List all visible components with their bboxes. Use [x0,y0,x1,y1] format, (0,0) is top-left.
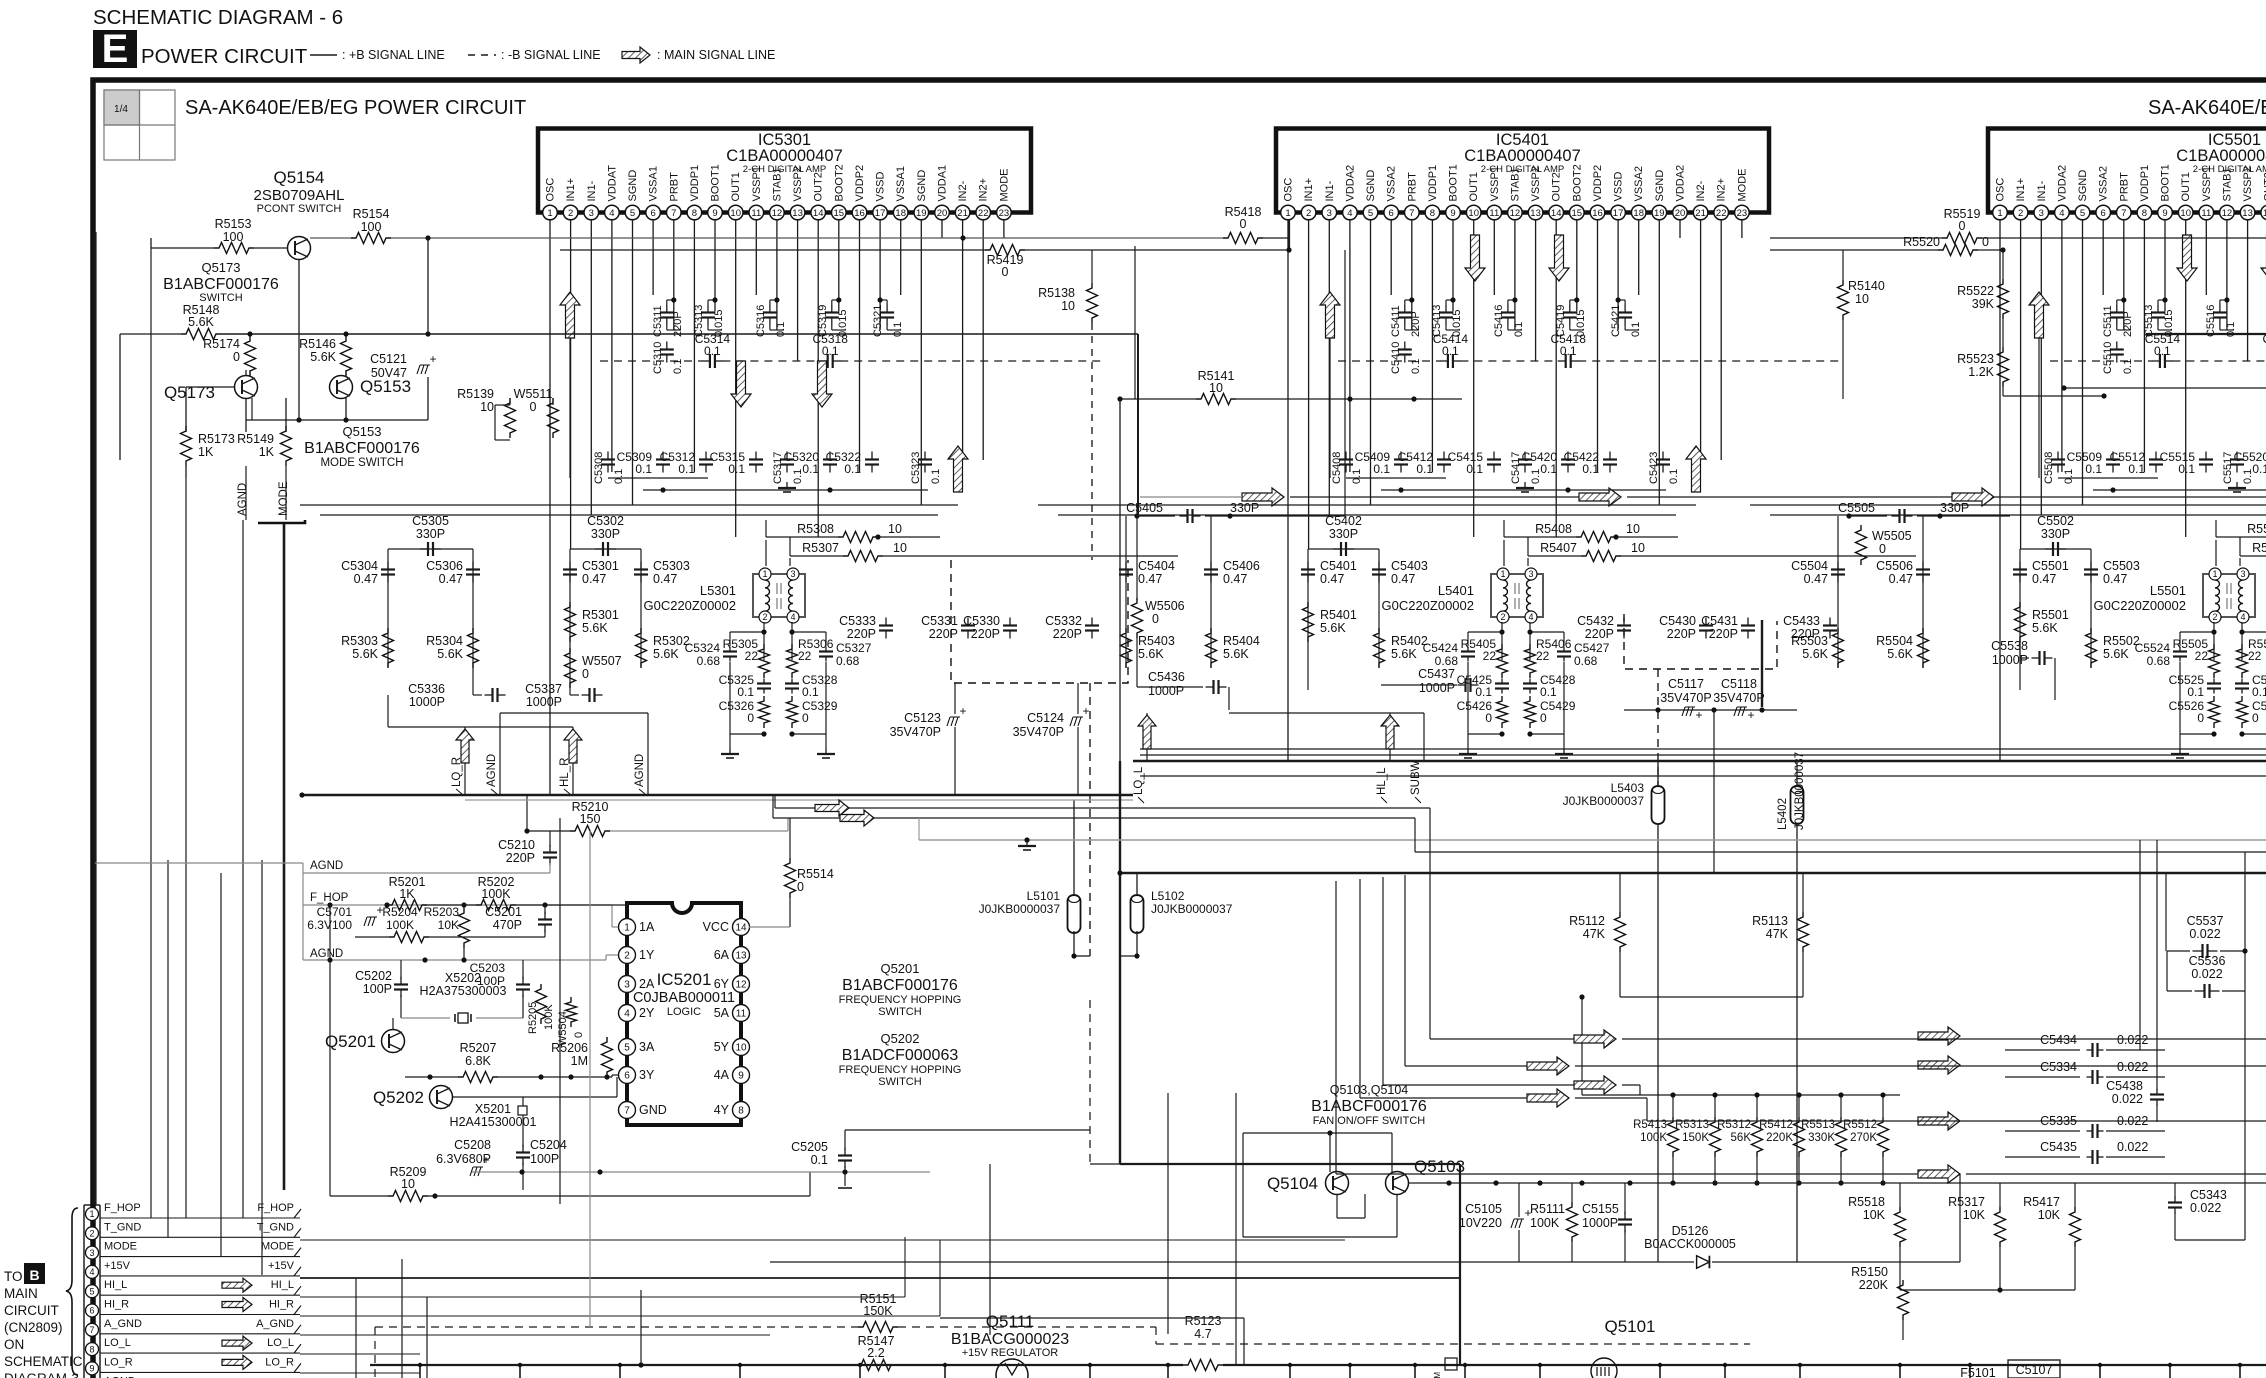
resistor R5508 10 [2216,536,2266,538]
capacitor C5315 [755,452,757,460]
svg-text:AGND: AGND [237,483,249,516]
svg-text:C5117: C5117 [1668,677,1704,691]
svg-text:C5304: C5304 [341,559,378,573]
svg-text:0.1: 0.1 [1630,322,1642,337]
svg-text:HL_R: HL_R [559,758,571,787]
wire stub [739,1365,741,1378]
svg-text:L5501: L5501 [2150,583,2186,598]
svg-text:C5118: C5118 [1721,677,1757,691]
svg-text:0.1: 0.1 [1373,462,1390,476]
resistor R5301 5.6K [565,602,576,642]
svg-text:100K: 100K [1530,1216,1560,1230]
svg-text:4: 4 [1347,208,1352,219]
resistor R5404 5.6K [1206,628,1217,668]
wire [2019,549,2021,690]
wire [120,333,181,335]
svg-text:HL_L: HL_L [1376,767,1388,795]
wire pin 1 drop [549,220,551,795]
wire verticals lower left [355,1278,357,1378]
wire pin 3 drop [590,220,592,515]
svg-text:IN2-: IN2- [957,180,969,201]
capacitor C5431 220P [1747,618,1749,626]
resistor R5304 5.6K [468,628,479,668]
svg-text:23: 23 [999,208,1010,219]
wire diag lines lower left [300,1353,420,1355]
wire pin 8 drop [693,220,695,472]
wire pin 19 drop [920,220,922,505]
-B dashed line with C5414 C5418 [1338,360,1440,362]
wire pin 19 drop [1658,220,1660,505]
svg-text:0.1: 0.1 [811,1153,828,1167]
resistor R5173 1K [181,426,192,466]
brace [66,1208,78,1375]
main signal arrow down [1549,235,1569,281]
capacitor C5425 0.1 [1501,679,1503,684]
wire pin 9 drop [714,220,716,311]
svg-text:A_GND: A_GND [256,1318,294,1330]
resistor R5514 0 [785,858,796,898]
-B dashed line with C5314 C5318 [600,360,702,362]
svg-text:C5504: C5504 [1791,559,1828,573]
svg-text:5: 5 [1368,208,1373,219]
svg-text:F_HOP: F_HOP [104,1202,141,1214]
resistor R5303 5.6K [383,628,394,668]
capacitor C5502 330P bridge [2020,548,2091,550]
wire dashed A_GND row [375,1326,858,1328]
svg-text:R5317: R5317 [1948,1195,1985,1209]
wire pin 17 drop [879,220,881,330]
svg-text:R5407: R5407 [1540,541,1577,555]
svg-text:9: 9 [1450,208,1455,219]
svg-text:15: 15 [834,208,845,219]
svg-text:C5536: C5536 [2189,954,2226,968]
capacitor C5401 [1307,562,1309,570]
wire pin 6 drop [652,220,654,295]
wire [1125,516,1127,667]
transformer L5301 G0C220Z00002 [753,574,805,617]
svg-text:220P: 220P [506,851,535,865]
svg-text:5: 5 [89,1286,94,1296]
svg-text:C5503: C5503 [2103,559,2140,573]
svg-text:C5427: C5427 [1574,641,1610,655]
svg-text:10K: 10K [1963,1208,1986,1222]
svg-text:POWER CIRCUIT: POWER CIRCUIT [141,45,308,68]
svg-text:PRBT: PRBT [668,172,680,202]
svg-text:20: 20 [1675,208,1686,219]
wire pin 5 drop [1370,220,1372,505]
svg-text:220P: 220P [1709,627,1738,641]
wire pin 3 drop [2040,220,2042,515]
svg-text:+: + [1082,704,1089,718]
svg-text:1: 1 [624,923,630,934]
svg-text:R5123: R5123 [1185,1314,1222,1328]
svg-text:C5204: C5204 [530,1138,567,1152]
svg-text:13: 13 [1530,208,1541,219]
svg-text:0.1: 0.1 [728,462,745,476]
svg-text:0: 0 [233,350,240,364]
svg-text:IN1+: IN1+ [1303,178,1315,202]
svg-text:4.7: 4.7 [1194,1327,1211,1341]
capacitor C5337 1000P [582,694,590,696]
svg-text:0: 0 [1240,217,1247,231]
svg-text:FREQUENCY HOPPING: FREQUENCY HOPPING [839,994,962,1006]
svg-text:BOOT1: BOOT1 [710,164,722,201]
wire pin 4 drop [2061,220,2063,472]
svg-text:2Y: 2Y [639,1006,655,1020]
wire stub [944,1365,946,1378]
svg-text:B1BACG000023: B1BACG000023 [951,1331,1069,1348]
capacitor C5305 330P bridge [388,548,473,550]
svg-text:0.1: 0.1 [930,469,942,484]
wire y1318 [940,1317,1244,1319]
svg-text:Q5202: Q5202 [373,1088,424,1107]
svg-text:C5406: C5406 [1223,559,1260,573]
svg-text:C5205: C5205 [791,1140,828,1154]
wire stub [1349,1365,1351,1378]
svg-text:VCC: VCC [703,920,729,934]
svg-text:12: 12 [735,980,747,991]
connector pin 8 LO_L [86,1343,99,1356]
resistor R5407 10 [1528,555,1581,557]
svg-text:330P: 330P [591,527,620,541]
svg-text:11: 11 [736,1009,747,1020]
svg-text:BOOT2: BOOT2 [1571,164,1583,201]
wire pin 7 drop [1411,220,1413,330]
svg-text:L5102: L5102 [1151,889,1185,903]
svg-text:39K: 39K [1972,297,1995,311]
wire stub [1969,1365,1971,1378]
svg-text:PRBT: PRBT [1406,172,1418,202]
svg-text:B1ADCF000063: B1ADCF000063 [842,1047,959,1064]
svg-text:VDDP1: VDDP1 [2139,165,2151,202]
svg-text:LO_R: LO_R [104,1356,133,1368]
resistor R5503 5.6K [1833,628,1844,668]
svg-text:220K: 220K [1766,1132,1793,1144]
capacitor C5317 [786,452,788,460]
wire T_GND long [300,1239,1345,1241]
wire stub [1167,1365,1169,1378]
capacitor C5323 [924,452,926,460]
main signal arrow down [2177,235,2197,281]
wire HI_R [300,1315,940,1317]
svg-text:C5311: C5311 [652,305,664,337]
svg-text:VSSP2: VSSP2 [792,166,804,201]
svg-text:0: 0 [582,667,589,681]
connector pin 1 F_HOP [86,1208,99,1221]
ground on grey line [1026,840,1028,846]
svg-text:MAIN: MAIN [4,1286,38,1301]
svg-text:1000P: 1000P [1992,653,2028,667]
svg-text:C5123: C5123 [904,711,941,725]
capacitor C5508 [2057,452,2059,460]
wire rail [1346,477,1446,479]
capacitor C5524 0.68 [2179,647,2181,652]
connector pin 6 HI_R [86,1304,99,1317]
svg-text:10K: 10K [2038,1208,2061,1222]
resistor R5302 5.6K [636,628,647,668]
svg-text:3: 3 [2240,569,2245,579]
svg-text:F_HOP: F_HOP [310,892,349,904]
wire transformer feed [2215,540,2217,566]
svg-text:35V470P: 35V470P [1013,725,1064,739]
svg-text:C5121: C5121 [370,352,407,366]
svg-text:C5417: C5417 [1510,452,1522,484]
svg-text:7: 7 [2121,208,2126,219]
svg-text:0: 0 [2197,711,2204,725]
svg-text:0.47: 0.47 [582,572,606,586]
svg-text:X5201: X5201 [475,1102,511,1116]
svg-text:W5511: W5511 [514,387,553,401]
wire pin 20 drop [941,220,943,238]
wire main bus y795 thick left [300,794,1133,797]
svg-text:R5138: R5138 [1038,286,1075,300]
svg-text:5.6K: 5.6K [1223,647,1249,661]
svg-text:0.022: 0.022 [2117,1033,2148,1047]
svg-text:C5302: C5302 [587,514,624,528]
svg-text:C5433: C5433 [1783,614,1820,628]
resistor C5326 0 [759,696,770,728]
svg-text:R5203: R5203 [424,905,460,919]
svg-text:R5403: R5403 [1138,634,1175,648]
main signal arrow right y818 [840,810,874,826]
svg-text:SGND: SGND [2077,170,2089,202]
svg-text:0.1: 0.1 [2252,685,2266,699]
ground [2179,748,2181,754]
svg-text:J0JKB0000037: J0JKB0000037 [1794,752,1806,830]
svg-text:G0C220Z00002: G0C220Z00002 [1381,598,1474,613]
svg-text:22: 22 [2195,649,2209,663]
capacitor C5432 220P [1623,618,1625,626]
svg-text:Q5153: Q5153 [360,377,411,396]
svg-text:L5301: L5301 [700,583,736,598]
resistor R5504 5.6K [1918,628,1929,668]
wire pin 2 drop [1308,220,1310,549]
svg-text:0.1: 0.1 [2154,344,2171,358]
svg-text:1.2K: 1.2K [1968,365,1994,379]
transistor Q5202 [430,1086,453,1109]
svg-text:0.1: 0.1 [802,685,819,699]
svg-text:LQ_R: LQ_R [451,757,463,787]
svg-text:Q5111: Q5111 [986,1312,1035,1331]
transistor Q5173 [235,376,258,399]
transistor Q5201 [382,1030,405,1053]
wire thick L5102 to bottom [1120,1163,1460,1165]
svg-text:VSSD: VSSD [875,171,887,201]
svg-text:220P: 220P [971,627,1000,641]
svg-text:100P: 100P [363,982,392,996]
svg-text:4: 4 [790,612,795,622]
svg-text:5: 5 [2080,208,2085,219]
jumper W5507 0 [565,648,576,688]
svg-text:G0C220Z00002: G0C220Z00002 [643,598,736,613]
svg-text:LO_R: LO_R [265,1356,294,1368]
svg-text:1000P: 1000P [1582,1216,1618,1230]
svg-text:R5205: R5205 [527,1002,539,1034]
wire pin 14 drop [1555,220,1557,537]
svg-text:0.1: 0.1 [2252,462,2266,476]
capacitor C5435 [2005,1156,2080,1158]
svg-text:C5410: C5410 [1390,342,1402,374]
svg-text:C5434: C5434 [2040,1033,2077,1047]
wire rail [1770,514,2266,516]
wire pin 1 drop [1999,220,2001,761]
ground [786,482,788,488]
wire bus y755 thin [1140,754,2266,756]
svg-text:1: 1 [1997,208,2002,219]
svg-text:0.1: 0.1 [1475,685,1492,699]
svg-text:1K: 1K [399,887,415,901]
wire rail [1750,504,2266,506]
resistor R5502 5.6K [2086,628,2097,668]
svg-text:C5303: C5303 [653,559,690,573]
wire pin 7 drop [673,220,675,330]
svg-text:CIRCUIT: CIRCUIT [4,1303,59,1318]
svg-text:18: 18 [895,208,906,219]
svg-text:+15V: +15V [268,1260,295,1272]
svg-text:OSC: OSC [545,178,557,202]
svg-text:C5208: C5208 [454,1138,491,1152]
section letter E box [93,30,137,68]
svg-text:220K: 220K [1859,1278,1889,1292]
wire stub [419,1365,421,1378]
svg-text:VSSP2: VSSP2 [2242,166,2254,201]
svg-text:C5502: C5502 [2037,514,2074,528]
svg-text:R5408: R5408 [1535,522,1572,536]
capacitor C5416 [1507,305,1509,313]
svg-text:3: 3 [89,1248,94,1258]
wire pin 8 drop [2143,220,2145,472]
svg-text:13: 13 [2242,208,2253,219]
svg-text:6: 6 [624,1071,630,1082]
svg-text:C5310: C5310 [652,342,664,374]
svg-text:C5408: C5408 [1331,452,1343,484]
svg-text:VDDA2: VDDA2 [1344,165,1356,202]
main signal arrow right y808 [815,800,849,816]
svg-text:C5324: C5324 [685,641,721,655]
svg-text:5.6K: 5.6K [1887,647,1913,661]
connector pin 9 LO_R [86,1362,99,1375]
svg-text:0.022: 0.022 [2117,1060,2148,1074]
svg-text:6A: 6A [714,948,730,962]
wire rail [1381,489,1666,491]
svg-text:11: 11 [751,208,761,219]
svg-text:0.1: 0.1 [635,462,652,476]
capacitor C5503 [2090,562,2092,570]
wire pin 22 drop [982,220,984,460]
svg-text:4: 4 [2240,612,2245,622]
capacitor C5408 [1345,452,1347,460]
svg-text:0.1: 0.1 [1560,344,1577,358]
svg-text:5.6K: 5.6K [310,350,336,364]
wire bus y873 thick [1120,872,2266,874]
svg-text:+: + [429,352,436,366]
wire stub [1899,1365,1901,1378]
svg-text:0: 0 [802,711,809,725]
capacitor C5333 220P [885,618,887,626]
svg-text:+: + [482,1153,489,1167]
svg-text:5.6K: 5.6K [1802,647,1828,661]
capacitor C5415 [1493,452,1495,460]
svg-text:Q5201: Q5201 [325,1032,376,1051]
main signal arrow up [1320,292,1340,338]
svg-text:0.47: 0.47 [2032,572,2056,586]
sheet quadrant index box 1/4 [104,90,175,160]
svg-text:HI_R: HI_R [104,1299,129,1311]
svg-text:C5337: C5337 [525,682,562,696]
svg-text:Q5173: Q5173 [201,260,240,275]
svg-text:VSSP1: VSSP1 [2201,166,2213,201]
svg-text:1000P: 1000P [409,695,445,709]
svg-text:0.022: 0.022 [2117,1140,2148,1154]
svg-text:R5301: R5301 [582,608,619,622]
svg-text:C5316: C5316 [755,305,767,337]
svg-text:22: 22 [1716,208,1727,219]
svg-text:B: B [29,1267,39,1283]
svg-text:C5105: C5105 [1465,1202,1502,1216]
svg-text:1000P: 1000P [526,695,562,709]
node HL_L [1389,713,1391,761]
wire far right verticals [2139,840,2141,1050]
svg-text:9: 9 [738,1071,744,1082]
svg-text:OUT2: OUT2 [1551,172,1563,201]
connector pin 3 MODE [86,1246,99,1259]
-B dashed line with C5514 C5518 [2050,360,2152,362]
svg-text:R5146: R5146 [299,337,336,351]
capacitor C5417 [1524,452,1526,460]
wire pin 15 drop [838,220,840,311]
wire pin 6 drop [1390,220,1392,295]
capacitor C5316 [769,305,771,313]
main signal arrow down [1465,235,1485,281]
svg-text:12: 12 [772,208,783,219]
capacitor C5302 330P bridge [570,548,641,550]
capacitor C5301 [569,562,571,570]
svg-text:LQ_L: LQ_L [1133,766,1145,795]
inductor L5102 J0JKB0000037 [1131,895,1144,933]
wire r5154 node down [427,238,429,334]
capacitor C5501 [2019,562,2021,570]
svg-text:R5174: R5174 [203,337,240,351]
wire pin 12 drop [2226,220,2228,330]
svg-text:1/4: 1/4 [114,104,128,115]
svg-text:C5432: C5432 [1577,614,1614,628]
capacitor C5328 0.1 [791,679,793,684]
connector pin 7 A_GND [86,1323,99,1336]
svg-text:C5436: C5436 [1148,670,1185,684]
svg-text:1: 1 [1500,569,1505,579]
svg-text:330P: 330P [1940,501,1969,515]
svg-text:10: 10 [1061,299,1075,313]
svg-text:R5149: R5149 [237,432,274,446]
svg-text:0.47: 0.47 [1320,572,1344,586]
svg-text:0.47: 0.47 [1804,572,1828,586]
svg-text:0.47: 0.47 [1138,572,1162,586]
svg-text:21: 21 [1695,208,1706,219]
svg-text:C5336: C5336 [408,682,445,696]
wire cap stub [1624,300,1626,305]
main arrow right sec3 [1952,488,1994,506]
svg-text:11: 11 [2201,208,2211,219]
svg-text:22: 22 [2248,649,2262,663]
capacitor C5325 0.1 [763,679,765,684]
svg-text:10: 10 [1855,292,1869,306]
wire stub [2239,1365,2241,1378]
wire transformer feed [1503,540,1505,566]
transformer L5401 G0C220Z00002 [1491,574,1543,617]
svg-text:C5107: C5107 [2016,1363,2053,1377]
wire stub [1799,1365,1801,1378]
wire dashed -B line bottom [1156,1343,1750,1345]
